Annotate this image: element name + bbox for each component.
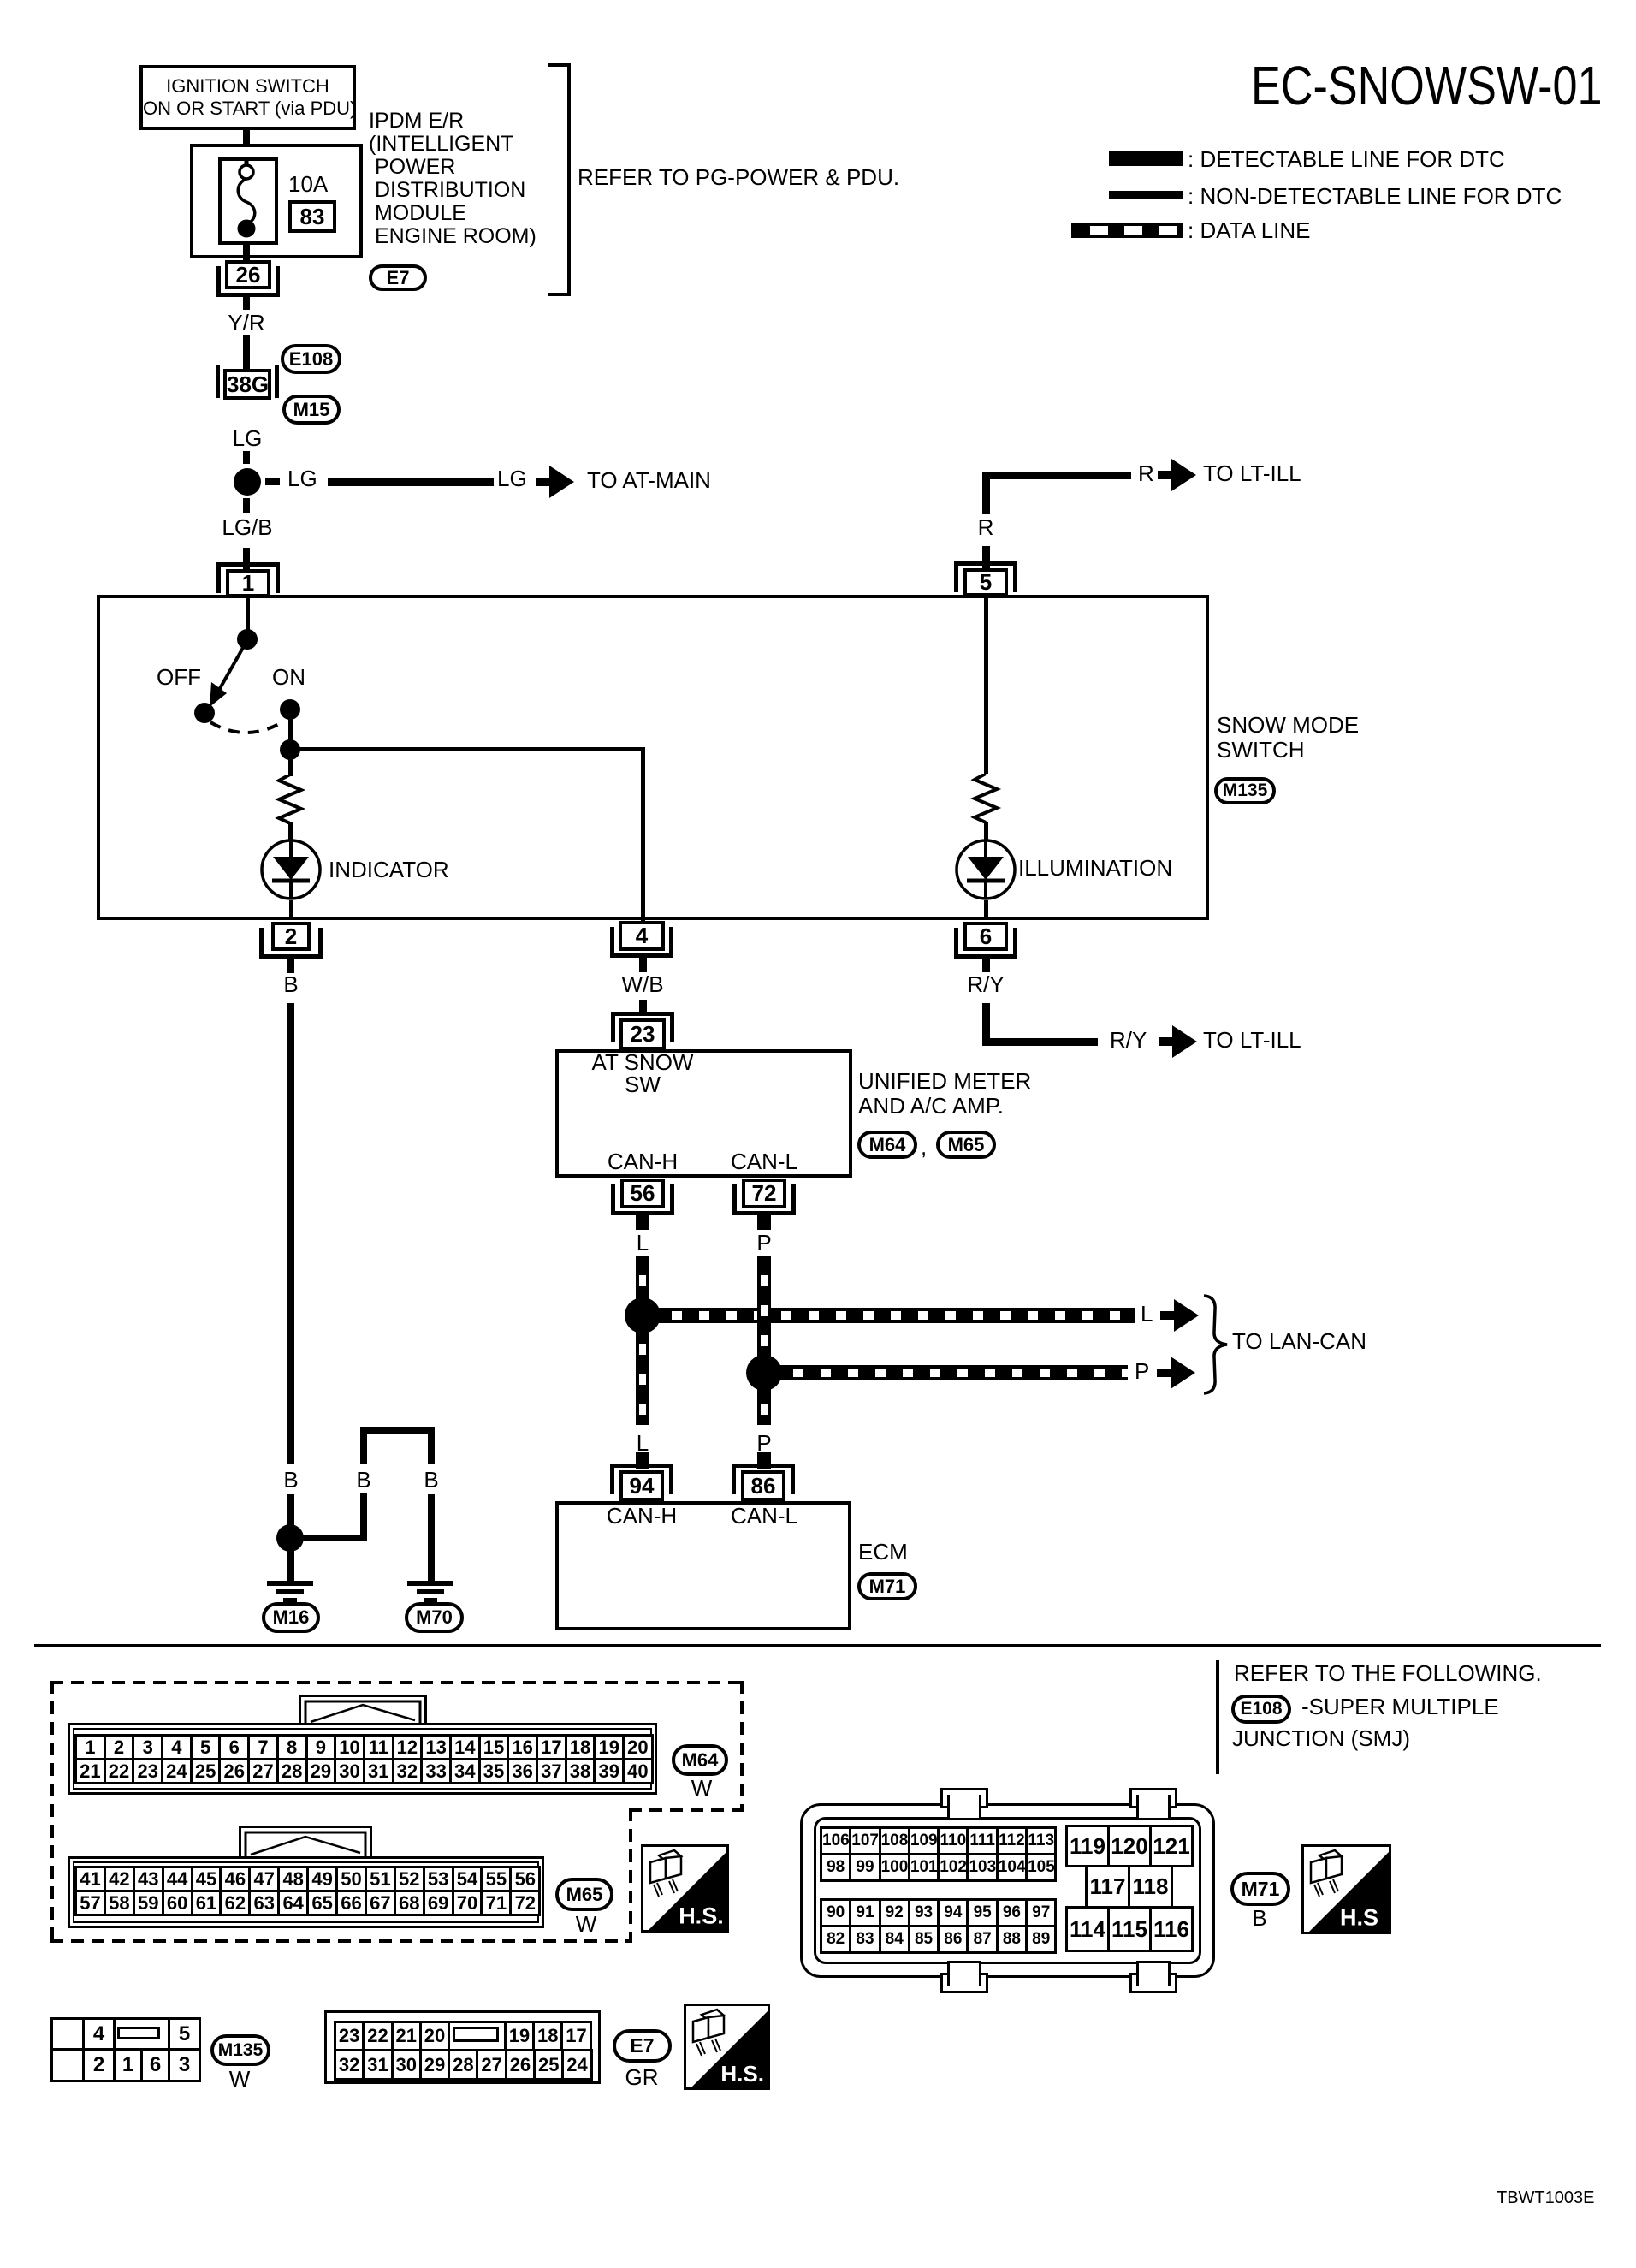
label P [593, 1232, 935, 1254]
wire pin5 to resistor illumination [984, 596, 988, 774]
label R at arrow [1138, 462, 1154, 484]
label TO AT-MAIN [587, 469, 711, 491]
M71 pins row 114-116 [1065, 1906, 1194, 1952]
svg-text:H.S.: H.S. [679, 1903, 724, 1929]
wire LG dash [243, 451, 250, 464]
M65 pins row 1 [74, 1866, 541, 1892]
legend detectable line sample [1109, 151, 1183, 166]
label LG/B [76, 516, 418, 538]
title EC-SNOWSW-01 [1251, 58, 1603, 113]
M71 pins row 90-97 [820, 1898, 1057, 1927]
label OFF [157, 666, 201, 688]
label B middle [193, 1469, 535, 1491]
wire B jumper right down [428, 1494, 435, 1581]
switch blade with arrow [193, 633, 261, 719]
connector M64 oval [857, 1131, 917, 1159]
ground M16 oval [262, 1602, 320, 1633]
switch ON contact [280, 699, 300, 720]
M64 pins row 2 [74, 1758, 654, 1784]
connector E108 oval (refer) [1231, 1695, 1291, 1724]
label B right [260, 1469, 602, 1491]
H.S. mark E7 [684, 2004, 770, 2090]
junction node P [746, 1355, 782, 1391]
label INDICATOR [329, 858, 449, 881]
right bracket [567, 63, 571, 296]
wire pin1 to switch [246, 595, 250, 636]
legend data line sample [1071, 223, 1183, 238]
H.S. mark M71 [1301, 1844, 1391, 1934]
label SUPER MULTIPLE [1301, 1695, 1499, 1718]
wire resistor to LED [288, 822, 293, 841]
connector 86 [732, 1464, 795, 1468]
data line L vertical upper [636, 1256, 649, 1306]
wire LG branch dash [265, 478, 280, 485]
M64 color W [531, 1777, 873, 1799]
IPDM E/R box [190, 144, 363, 258]
unified meter box [555, 1049, 852, 1178]
wire Y/R lower [243, 335, 250, 371]
wire LG horizontal to AT-MAIN [328, 478, 494, 486]
label REFER TO THE FOLLOWING [1234, 1662, 1542, 1684]
label B [120, 973, 462, 995]
stub below 72 [757, 1215, 771, 1230]
arrow TO LT-ILL RY [1159, 1037, 1173, 1046]
legend detectable line text [1188, 148, 1505, 170]
wire ignition to fuse [243, 130, 250, 164]
connector 2 [259, 928, 264, 959]
wire W/B stub [639, 958, 647, 972]
wire LG/B dash below junction [243, 498, 250, 513]
wire R/Y down [982, 1003, 990, 1045]
M64 oval label [672, 1744, 728, 1776]
label P at arrow [1135, 1360, 1149, 1382]
M71 pins row 98-105 [820, 1853, 1057, 1882]
wire R vertical [982, 472, 990, 514]
label R/Y [815, 973, 1157, 995]
M64 housing [68, 1723, 657, 1795]
connector 94 [610, 1464, 673, 1468]
M65 color W [415, 1913, 757, 1935]
switch throw arc [201, 710, 304, 749]
data line P vertical lower [757, 1385, 771, 1425]
LED illumination [954, 838, 1018, 902]
wire vertical to pin 4 [641, 747, 645, 921]
H.S. mark M64 M65 [641, 1844, 729, 1933]
connector M71 oval [857, 1572, 917, 1600]
M65 housing [68, 1856, 544, 1928]
wire fuse to connector 26 [243, 241, 250, 262]
refer-to divider line [1216, 1660, 1219, 1774]
svg-text:H.S: H.S [1340, 1904, 1378, 1930]
M71 pins row 119-121 [1065, 1825, 1194, 1867]
connector 38G [216, 365, 220, 398]
data line L vertical lower [636, 1325, 649, 1425]
wire resistor to LED illumination [984, 822, 988, 841]
arrow TO LT-ILL R [1158, 471, 1172, 479]
wire R/Y horizontal [982, 1038, 1098, 1046]
data line P into 86 [757, 1452, 771, 1469]
label JUNCTION SMJ [1232, 1727, 1410, 1749]
comma between M64 M65 [921, 1136, 927, 1158]
junction node ON [280, 739, 300, 760]
wire to ground M16 [287, 1545, 294, 1581]
label W/B [471, 973, 814, 995]
wire Y/R upper stub [243, 297, 250, 310]
connector M135 oval [1214, 777, 1276, 804]
M135 pinout row 1 [50, 2017, 201, 2051]
label TO LAN-CAN [1232, 1330, 1366, 1352]
wire LED to pin 2 [289, 900, 293, 920]
label L [471, 1232, 814, 1254]
wire B stub [287, 959, 294, 973]
M71 top tabs [940, 1788, 988, 1808]
label L lower [471, 1432, 814, 1454]
legend data line text [1188, 219, 1311, 241]
label AT SNOW SW [514, 1051, 771, 1095]
wire R/Y stub [982, 959, 990, 972]
svg-text:H.S.: H.S. [720, 2061, 764, 2087]
M135 oval label [210, 2034, 270, 2066]
ground M70 symbol [407, 1581, 453, 1586]
connector 72 [732, 1184, 737, 1215]
data line L into 94 [636, 1452, 649, 1469]
E7 housing [324, 2010, 601, 2084]
E7 oval label [613, 2029, 672, 2063]
label CAN-H meter [471, 1150, 814, 1173]
IPDM E/R label [369, 110, 536, 248]
label Y/R [75, 312, 418, 334]
connector M65 oval [936, 1131, 996, 1159]
data line P vertical upper [757, 1256, 771, 1361]
connector 4 [610, 927, 614, 958]
dashed box around M64 M65 [50, 1681, 744, 1684]
resistor illumination [969, 774, 1004, 823]
label R [815, 516, 1157, 538]
label ILLUMINATION [1018, 857, 1172, 879]
ignition switch box [139, 65, 356, 130]
label CAN-L ECM [593, 1505, 935, 1527]
label TO LT-ILL RY [1203, 1029, 1301, 1051]
M65 oval label [555, 1878, 613, 1911]
fuse value 10A [288, 173, 328, 195]
connector 5 [954, 561, 1017, 566]
wire LG/B to connector 1 [243, 548, 250, 572]
arrow P LAN-CAN [1157, 1369, 1171, 1377]
junction node LG [234, 468, 261, 496]
wire R horizontal [982, 472, 1131, 479]
resistor indicator [274, 775, 308, 824]
wire W/B to 23 [639, 1000, 647, 1016]
M64 tab [299, 1695, 427, 1725]
M71 bottom tabs [940, 1973, 988, 1993]
legend non-detectable line sample [1109, 191, 1183, 199]
LED indicator [259, 838, 323, 902]
arrow L LAN-CAN [1160, 1311, 1175, 1320]
wire R to connector 5 [982, 546, 990, 570]
M71 pins row 82-89 [820, 1925, 1057, 1954]
wire junction to resistor [288, 755, 293, 776]
label SNOW MODE SWITCH [1217, 713, 1359, 763]
label LG [76, 427, 418, 449]
wire ON down [288, 709, 293, 748]
data line P horizontal [776, 1365, 1128, 1380]
label LG branch [287, 467, 317, 490]
label L at arrow [1141, 1303, 1153, 1325]
separator line [34, 1644, 1601, 1647]
label CAN-H ECM [471, 1505, 813, 1527]
connector 26 [216, 266, 221, 297]
connector E7 oval [369, 264, 427, 291]
junction node L [625, 1297, 661, 1333]
wire LED to pin 6 [984, 900, 988, 920]
M135 slot [117, 2027, 160, 2039]
wire B jumper horizontal [301, 1535, 367, 1541]
fuse box [218, 157, 278, 245]
connector M15 oval [282, 395, 341, 425]
label CAN-L meter [593, 1150, 935, 1173]
connector 6 [954, 928, 958, 959]
snow mode switch box [97, 595, 1209, 920]
M71 oval label [1230, 1872, 1290, 1906]
label UNIFIED METER AND A/C AMP [858, 1069, 1031, 1119]
M64 pins row 1 [74, 1734, 654, 1760]
fuse 10A symbol [224, 159, 269, 241]
fuse number box 83 [288, 200, 336, 233]
data line L horizontal [655, 1308, 1135, 1323]
label R/Y at arrow [1110, 1029, 1147, 1051]
legend non-detectable line text [1188, 185, 1562, 207]
M71 pins row 106-113 [820, 1826, 1057, 1855]
connector 1 [216, 562, 280, 567]
label REFER TO PG-POWER and PDU [578, 166, 899, 188]
junction node B [276, 1524, 304, 1552]
label ECM [858, 1541, 908, 1563]
label P lower [593, 1432, 935, 1454]
figure code TBWT1003E [1497, 2189, 1594, 2206]
stub below 56 [636, 1215, 649, 1230]
wire B down [287, 1003, 294, 1464]
M65 pins row 2 [74, 1890, 541, 1916]
E7 color GR [471, 2066, 813, 2088]
label B left [120, 1469, 462, 1491]
wire horizontal to pin 4 [290, 747, 643, 751]
M135 color W [68, 2068, 411, 2090]
label TO LT-ILL R [1203, 462, 1301, 484]
E7 pins row 1 [334, 2021, 592, 2051]
M135 pinout row 2 [50, 2048, 201, 2082]
switch OFF contact [194, 703, 215, 723]
label LG at arrow [497, 467, 527, 490]
brace TO LAN-CAN [1201, 1294, 1230, 1395]
switch common node [237, 629, 258, 650]
ground M16 symbol [267, 1581, 313, 1586]
ECM box [555, 1501, 851, 1630]
M65 tab [239, 1826, 372, 1859]
M71 pins row 117-118 [1085, 1865, 1173, 1909]
label ON [272, 666, 305, 688]
M71 housing [800, 1803, 1215, 1978]
E7 slot [453, 2027, 499, 2042]
connector 56 [611, 1184, 615, 1215]
wire B jumper up-over [360, 1427, 367, 1464]
ground M70 oval [405, 1602, 464, 1633]
connector E108 oval [281, 344, 341, 374]
E7 pins row 2 [334, 2049, 593, 2081]
M71 color B [1088, 1907, 1431, 1929]
wire B to junction [287, 1494, 294, 1531]
arrow TO AT-MAIN [536, 478, 550, 486]
connector 23 [611, 1012, 674, 1016]
